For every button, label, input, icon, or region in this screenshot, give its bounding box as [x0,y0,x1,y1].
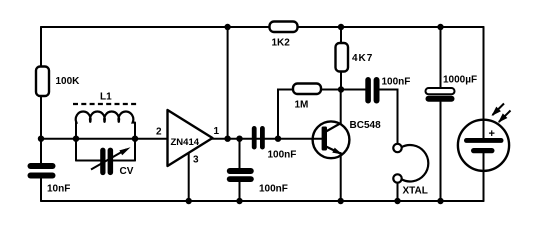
earphone body arc [401,145,428,181]
svg-text:100nF: 100nF [382,77,411,88]
svg-text:4K7: 4K7 [352,53,373,64]
light arrow 1 [493,104,505,116]
transistor collector stroke [326,123,341,132]
wire branch down to shunt 100nF [239,139,241,168]
wire pin 1 output line to transistor base [210,138,322,140]
capacitor output plates [365,77,371,104]
earphone terminal upper [393,144,401,152]
transistor emitter stroke with arrow [326,147,342,155]
svg-text:100nF: 100nF [259,184,288,195]
junction ground / C 1000uF [437,198,443,204]
capacitor 100nF output (top) [365,77,410,104]
junction top rail / R 4K7 [338,24,344,30]
svg-text:XTAL: XTAL [403,186,428,197]
wire tank right side [134,123,136,161]
junction left rail / tuned line [38,136,44,142]
resistor 100K [36,67,80,97]
capacitor 1000uF positive plate (hollow) [426,88,455,94]
wire emitter vertical to ground [340,153,342,201]
svg-text:L1: L1 [100,92,112,103]
wire tuned-circuit line to pin 2 [41,138,170,140]
junction ground / pin 3 [186,198,192,204]
svg-text:+: + [489,128,495,140]
svg-text:BC548: BC548 [350,120,382,131]
wire left rail lower below C 10nF [40,179,42,202]
svg-text:100nF: 100nF [268,150,297,161]
svg-text:ZN414: ZN414 [171,137,200,148]
capacitor 10nF [28,163,71,195]
capacitor coupling plates [252,126,257,150]
solar cell negative plate [471,148,495,153]
earphone terminal lower [393,174,401,182]
wire right rail (solar cell branch) [483,27,485,201]
junction top rail / C 1000uF [437,24,443,30]
svg-text:3: 3 [193,155,199,166]
transistor Q1 BC548 [313,120,381,158]
capacitor CV (variable) [91,147,134,177]
capacitor 10nF plates [28,163,56,169]
wire bottom ground rail [41,200,484,202]
wire pin 1 up to top rail [227,27,229,139]
wire R 4K7 to collector junction [340,71,342,90]
inductor L1 ferrite core (dashed) [73,103,138,105]
wire pin 3 to ground [188,150,190,201]
svg-text:1K2: 1K2 [272,38,291,49]
svg-text:100K: 100K [56,76,81,87]
resistor 1K2 [270,22,298,49]
capacitor shunt plates [227,168,254,174]
inductor L1 winding [76,112,135,123]
earphone XTAL [393,144,428,197]
svg-text:1M: 1M [295,100,309,111]
wire top supply rail [41,26,484,28]
junction top rail / ZN414 output [224,24,230,30]
solar cell B1 [458,104,511,172]
wire coupling cap to earphone corner [380,90,398,145]
wire top rail down to R 4K7 [340,27,342,44]
wire earphone lower terminal to ground [397,183,399,202]
light arrow 2 [499,111,511,123]
junction collector node [338,86,344,92]
transistor base bar [322,127,327,151]
wire base junction up and right to R 1M [278,90,293,139]
svg-text:CV: CV [120,166,134,177]
resistor 1M [293,84,321,111]
junction ground / shunt cap [236,198,242,204]
wire tank left side [75,123,77,161]
wire top rail down to C 1000uF [440,27,442,89]
wire collector vertical [340,90,342,125]
junction ground / earphone [394,198,400,204]
wire left rail upper (antenna/bias) [40,27,42,163]
wire shunt 100nF to ground [239,182,241,201]
IC U1 ZN414 (triangle body) [168,110,213,166]
transistor envelope circle [313,121,350,158]
junction ground / emitter [338,198,344,204]
junction output / shunt cap [236,136,242,142]
junction tank left [73,136,79,142]
capacitor 100nF coupling (series) [252,126,297,161]
wire collector junction to coupling cap [341,89,366,91]
capacitor 1000uF negative plate [426,96,455,102]
capacitor 100nF shunt [227,168,288,195]
svg-text:1000µF: 1000µF [443,75,477,86]
svg-text:10nF: 10nF [47,184,70,195]
inductor L1 [73,92,138,123]
wire R 1M to collector junction [321,89,341,91]
junction tank right [132,136,138,142]
svg-text:1: 1 [214,126,220,137]
capacitor CV plates [100,148,105,176]
solar cell internal leads [483,120,485,171]
solar cell positive plate [464,138,504,143]
junction pin1 / feedback [224,136,230,142]
svg-text:2: 2 [156,127,162,138]
capacitor 1000uF electrolytic [426,75,478,102]
junction base / R 1M [275,136,281,142]
solar cell circle [458,120,509,171]
resistor 4K7 [336,43,374,72]
wire tank bottom CV to right [113,160,136,162]
wire C 1000uF to ground [440,102,442,201]
capacitor CV variable arrow [91,150,126,170]
wire tank bottom left to CV [76,160,101,162]
